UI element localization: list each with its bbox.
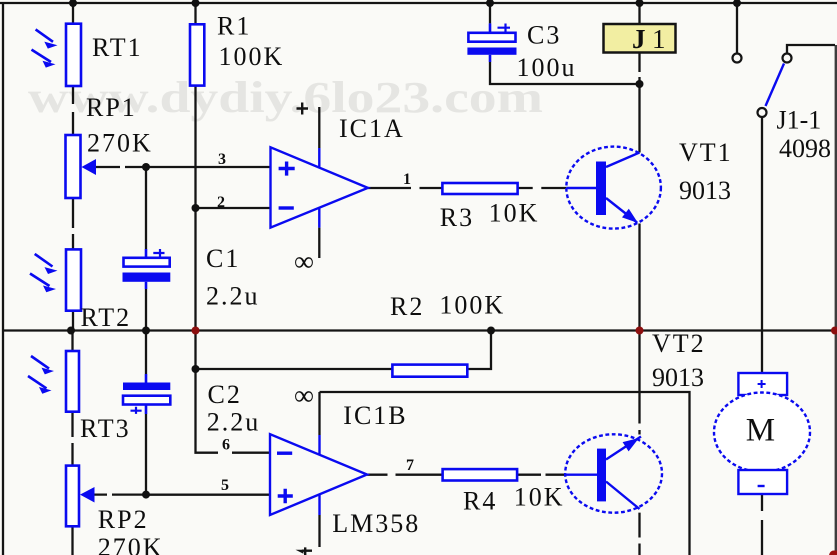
svg-text:RT2: RT2 (81, 303, 132, 332)
svg-text:3: 3 (218, 151, 226, 168)
IC1A V+ symbol (297, 103, 309, 115)
svg-text:R1: R1 (217, 12, 251, 41)
wire IC1A V+ pin (318, 107, 320, 148)
wire RP1 to RT2 (72, 198, 74, 250)
wire IC1B output to R4 (367, 474, 443, 476)
wire rail to RT1 (72, 3, 74, 24)
motor M plus terminal (738, 373, 787, 395)
wire bus to C2 top (145, 331, 147, 375)
wire R4 to VT2 base (517, 474, 565, 476)
svg-text:J: J (632, 24, 646, 54)
svg-text:1: 1 (403, 171, 411, 188)
transistor VT2 (565, 434, 662, 512)
motor M minus terminal (738, 470, 787, 494)
svg-text:C3: C3 (527, 21, 561, 50)
wire junction to VT1 collector (638, 84, 640, 153)
wire RP2 wiper to node B (93, 493, 270, 495)
svg-text:J1-1: J1-1 (777, 106, 822, 135)
svg-text:C1: C1 (206, 244, 240, 273)
wire J1 to junction (638, 53, 640, 85)
svg-text:270K: 270K (87, 129, 153, 158)
wire node C down to IC1B pin6 (196, 331, 271, 453)
wire RT3 to RP2 (71, 412, 73, 466)
right border (835, 45, 837, 555)
svg-text:RP1: RP1 (86, 93, 137, 122)
svg-text:∞: ∞ (294, 247, 314, 278)
photoresistor RT3 (28, 351, 79, 412)
resistor R4 (443, 469, 517, 480)
wire IC1A output to R3 (368, 187, 443, 189)
wire rail to switch contact (736, 3, 738, 53)
switch J1-1 blade (766, 64, 785, 107)
wire C3 bottom to junction (490, 62, 640, 84)
svg-text:6: 6 (222, 437, 230, 454)
svg-text:10K: 10K (489, 199, 540, 228)
wire IC1A pin2 (196, 207, 271, 209)
wire C1 bottom to bus (145, 289, 147, 331)
wire bus to VT2 emitter (638, 331, 640, 435)
wire IC1A V- pin (318, 228, 320, 258)
svg-text:VT1: VT1 (679, 138, 733, 167)
wire switch common to motor (761, 117, 763, 373)
wire R3 to VT1 base (518, 187, 567, 189)
wire motor minus to bottom (761, 494, 763, 555)
capacitor C2 (123, 374, 170, 414)
wire IC1B pin5 (146, 493, 270, 495)
switch J1-1 throw contact (783, 54, 792, 63)
wire IC1B V- pin (318, 515, 320, 547)
potentiometer RP1 (66, 135, 81, 198)
svg-text:270K: 270K (98, 533, 164, 555)
wire C2 bottom to node B (145, 414, 147, 495)
op-amp IC1B (270, 434, 367, 515)
wire C3 top lead (489, 3, 491, 23)
svg-text:9013: 9013 (652, 363, 704, 392)
relay J1 box (604, 24, 676, 53)
svg-text:4098: 4098 (779, 134, 831, 163)
svg-text:5: 5 (221, 477, 229, 494)
wire RT2 to bus (72, 311, 74, 331)
motor M body (714, 393, 810, 472)
svg-text:VT2: VT2 (652, 329, 706, 358)
svg-text:IC1B: IC1B (343, 401, 407, 430)
wire VT2 collector to bottom (638, 513, 640, 555)
svg-text:100u: 100u (517, 53, 577, 82)
wire RT1 to RP1 (72, 86, 74, 135)
potentiometer RP2 (66, 466, 79, 527)
svg-text:RT1: RT1 (92, 33, 143, 62)
svg-text:2: 2 (217, 194, 225, 211)
svg-text:100K: 100K (439, 291, 505, 320)
junction dots red (192, 327, 837, 335)
left border (2, 3, 4, 555)
wire R2 to bus riser (467, 331, 491, 370)
svg-text:∞: ∞ (294, 381, 314, 412)
wire R1 bottom to bus (194, 86, 196, 331)
svg-text:7: 7 (406, 457, 414, 474)
svg-text:RP2: RP2 (98, 505, 149, 534)
capacitor C3 (467, 23, 516, 62)
wire bus to RT3 (71, 331, 73, 352)
svg-text:R2: R2 (390, 292, 424, 321)
wire bus (horizontal node line) (3, 329, 836, 331)
junction dots black (67, 0, 741, 499)
capacitor C1 (123, 249, 171, 289)
svg-text:IC1A: IC1A (339, 114, 405, 143)
resistor R2 (392, 365, 467, 377)
wire node C to R2 (196, 368, 393, 370)
svg-text:C2: C2 (208, 380, 242, 409)
RP2 wiper arrow (80, 487, 95, 503)
red corner watermark (829, 551, 837, 555)
wire RP1 wiper to node A (95, 166, 271, 168)
wire RP2 to bottom edge (71, 526, 73, 555)
switch J1-1 common contact (758, 108, 767, 117)
svg-text:2.2u: 2.2u (206, 282, 260, 311)
svg-text:RT3: RT3 (80, 414, 131, 443)
wire R1 top lead (194, 3, 196, 24)
wire switch throw to right border (787, 45, 835, 53)
svg-text:R4: R4 (463, 487, 497, 516)
wire rail to J1 (638, 3, 640, 24)
wire top rail (0, 2, 837, 4)
wire IC1B V+ pin (318, 392, 320, 435)
op-amp IC1A (271, 147, 368, 227)
svg-text:1: 1 (652, 24, 666, 54)
svg-text:LM358: LM358 (332, 509, 420, 538)
svg-text:10K: 10K (514, 483, 565, 512)
wire IC1B power rail to right (320, 392, 690, 555)
resistor R1 (190, 24, 204, 85)
svg-text:M: M (746, 413, 775, 449)
svg-text:R3: R3 (440, 203, 474, 232)
RP1 wiper arrow (82, 159, 97, 175)
svg-text:9013: 9013 (679, 176, 731, 205)
wire VT1 emitter to bus (638, 224, 640, 331)
svg-text:2.2u: 2.2u (207, 408, 261, 437)
transistor VT1 (566, 147, 661, 229)
wire node A to C1 top (145, 167, 147, 249)
switch J1-1 contact top (733, 54, 742, 63)
IC1B V- symbol (arrow cross) (302, 547, 312, 555)
photoresistor RT1 (32, 24, 82, 86)
resistor R3 (442, 183, 517, 194)
svg-text:100K: 100K (219, 42, 285, 71)
photoresistor RT2 (30, 249, 81, 310)
